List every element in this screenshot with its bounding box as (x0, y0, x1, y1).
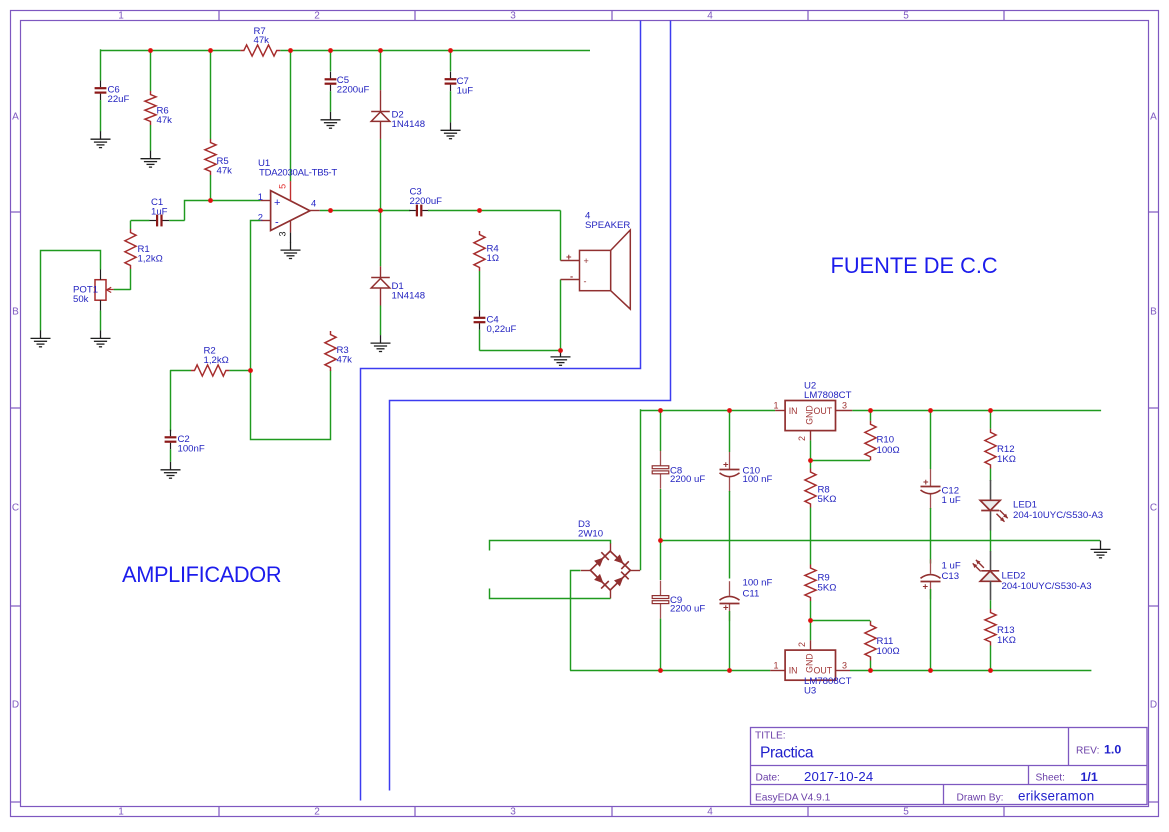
svg-text:2200uF: 2200uF (410, 196, 443, 207)
op-amp U1 TDA2030AL-TB5-T (258, 158, 338, 237)
svg-text:erikseramon: erikseramon (1018, 789, 1094, 804)
section separator line inner (390, 21, 671, 791)
svg-text:IN: IN (789, 406, 798, 416)
resistor R9 (805, 565, 837, 602)
svg-text:GND: GND (805, 653, 815, 673)
svg-text:1: 1 (773, 401, 778, 411)
wire (729, 410, 731, 452)
svg-text:3: 3 (510, 807, 516, 818)
junction (988, 408, 993, 413)
svg-text:2: 2 (797, 436, 807, 441)
ground (371, 335, 391, 351)
svg-text:5: 5 (903, 10, 909, 21)
wire AC input 1 (490, 541, 611, 551)
svg-text:2200 uF: 2200 uF (670, 474, 705, 485)
svg-text:2: 2 (314, 10, 320, 21)
wire (870, 620, 872, 623)
svg-text:1KΩ: 1KΩ (997, 454, 1016, 465)
resistor R8 (805, 469, 837, 508)
svg-text:1: 1 (118, 807, 124, 818)
svg-text:47k: 47k (337, 355, 353, 366)
junction (288, 48, 293, 53)
LED1 pin (990, 480, 992, 500)
svg-text:5KΩ: 5KΩ (818, 583, 837, 594)
junction R2 (248, 368, 253, 373)
capacitor C6 (95, 81, 130, 105)
capacitor C8 (652, 451, 705, 489)
svg-text:GND: GND (805, 405, 815, 425)
capacitor C9 (652, 581, 705, 619)
ground (441, 122, 461, 138)
svg-text:D: D (1150, 700, 1157, 711)
wire (640, 409, 642, 570)
svg-text:TITLE:: TITLE: (755, 731, 786, 742)
ground (321, 112, 341, 128)
wire (210, 50, 212, 139)
junction (328, 48, 333, 53)
svg-text:SPEAKER: SPEAKER (585, 220, 630, 231)
svg-text:2200 uF: 2200 uF (670, 604, 705, 615)
wire from speaker - (560, 280, 562, 351)
wire (990, 646, 992, 671)
wire (930, 410, 932, 469)
svg-text:C11: C11 (743, 588, 760, 599)
svg-text:+: + (584, 256, 589, 266)
junction output (328, 208, 333, 213)
svg-text:A: A (12, 112, 19, 123)
wire (330, 91, 332, 112)
capacitor C12 (921, 469, 961, 509)
svg-text:OUT: OUT (814, 666, 833, 676)
svg-text:Date:: Date: (756, 773, 780, 784)
svg-text:2W10: 2W10 (578, 529, 603, 540)
capacitor C2 (165, 430, 205, 455)
wire (290, 50, 292, 181)
ruler numbers top (118, 10, 909, 21)
svg-text:0,22uF: 0,22uF (487, 324, 517, 335)
capacitor C11 (720, 578, 773, 622)
LED2 pin (990, 581, 992, 600)
wire (810, 461, 812, 469)
junction R4 (477, 208, 482, 213)
wire (114, 289, 131, 291)
capacitor C3 (409, 187, 442, 217)
wire (660, 541, 662, 581)
junction (928, 408, 933, 413)
junction D-column (378, 208, 383, 213)
wire (479, 271, 481, 310)
svg-text:LM7808CT: LM7808CT (804, 390, 852, 401)
diode D1 (371, 278, 425, 302)
svg-text:3: 3 (842, 401, 847, 411)
wire output (320, 210, 410, 212)
svg-text:LED1: LED1 (1013, 500, 1037, 511)
svg-text:Drawn By:: Drawn By: (957, 792, 1004, 803)
svg-text:100 nF: 100 nF (743, 474, 773, 485)
svg-text:1N4148: 1N4148 (392, 119, 426, 130)
wire (870, 661, 872, 671)
wire feedback (251, 221, 331, 440)
wire (380, 211, 382, 266)
wire (131, 220, 150, 222)
LED LED1 (980, 500, 1103, 522)
wire (150, 50, 152, 91)
wire AC input 2 (490, 589, 611, 599)
capacitor C5 (325, 72, 370, 96)
wire to speaker + (560, 211, 562, 261)
resistor R12 (985, 429, 1016, 469)
svg-text:3: 3 (510, 10, 516, 21)
wire (660, 410, 662, 451)
svg-text:AMPLIFICADOR: AMPLIFICADOR (122, 562, 281, 587)
wire (990, 531, 992, 552)
ground (141, 151, 161, 167)
wire (810, 621, 812, 641)
svg-text:2200uF: 2200uF (337, 85, 370, 96)
svg-text:REV:: REV: (1076, 746, 1099, 757)
svg-text:1uF: 1uF (457, 85, 474, 96)
section separator line outer (361, 21, 641, 801)
wire PSU VCC+ rail (852, 410, 1101, 412)
wire (380, 139, 382, 211)
wire (990, 410, 992, 429)
wire (810, 440, 812, 460)
svg-text:Practica: Practica (760, 745, 814, 762)
wire PSU center tap (660, 540, 1100, 542)
svg-text:LED2: LED2 (1002, 571, 1026, 582)
diode D2 pin (380, 90, 382, 111)
ruler numbers bottom (118, 807, 909, 818)
svg-text:+: + (723, 460, 729, 471)
diode D2 (371, 110, 425, 131)
svg-text:5KΩ: 5KΩ (818, 494, 837, 505)
wire VCC rail left (100, 50, 240, 52)
resistor R13 (985, 609, 1016, 646)
ground (281, 242, 301, 258)
wire (150, 125, 152, 151)
wire (170, 370, 191, 372)
regulator U2 LM7808CT (773, 381, 852, 442)
svg-text:2: 2 (797, 642, 807, 647)
svg-text:4: 4 (707, 807, 713, 818)
svg-text:5: 5 (278, 184, 288, 189)
ruler letters left (12, 112, 19, 711)
wire (729, 611, 731, 670)
svg-text:B: B (12, 307, 19, 318)
wire (930, 589, 932, 670)
ground (91, 131, 111, 147)
junction speaker gnd (558, 348, 563, 353)
wire (480, 350, 561, 352)
svg-text:204-10UYC/S530-A3: 204-10UYC/S530-A3 (1002, 581, 1092, 592)
svg-text:1N4148: 1N4148 (392, 291, 426, 302)
svg-text:1: 1 (118, 10, 124, 21)
resistor R6 (145, 91, 172, 126)
wire (330, 50, 332, 71)
wire (990, 600, 992, 609)
svg-text:C: C (1150, 503, 1157, 514)
wire (210, 175, 212, 201)
wire (810, 460, 870, 462)
junction +input (208, 198, 213, 203)
ruler letters right (1150, 112, 1157, 711)
diode D1 pin (380, 266, 382, 278)
wire (930, 508, 932, 564)
svg-text:TDA2030AL-TB5-T: TDA2030AL-TB5-T (259, 168, 337, 179)
svg-text:IN: IN (789, 666, 798, 676)
junction (448, 48, 453, 53)
resistor R5 (205, 139, 232, 177)
junction (727, 408, 732, 413)
junction (988, 668, 993, 673)
resistor R7 (240, 26, 280, 56)
svg-text:C13: C13 (942, 571, 960, 582)
capacitor C4 (474, 310, 517, 335)
wire PSU VCC- rail (850, 670, 1091, 672)
capacitor C10 (720, 452, 773, 492)
wire (810, 508, 812, 565)
wire (810, 601, 812, 621)
svg-text:1/1: 1/1 (1081, 770, 1098, 784)
wire (380, 306, 382, 336)
svg-text:U3: U3 (804, 686, 816, 697)
svg-text:204-10UYC/S530-A3: 204-10UYC/S530-A3 (1013, 510, 1103, 521)
ground (31, 330, 51, 346)
resistor R11 (865, 622, 900, 661)
ground (551, 351, 571, 366)
wire (480, 210, 561, 212)
svg-text:A: A (1150, 112, 1157, 123)
wire (810, 620, 870, 622)
wire (170, 370, 172, 431)
wire (450, 50, 452, 71)
svg-text:1.0: 1.0 (1104, 743, 1121, 757)
speaker SPEAKER (561, 211, 631, 309)
U1 pin3 ground lead (290, 233, 292, 243)
wire VCC rail right (280, 50, 590, 52)
svg-text:50k: 50k (73, 294, 89, 305)
svg-text:1: 1 (258, 191, 263, 202)
svg-text:OUT: OUT (814, 406, 833, 416)
svg-text:EasyEDA V4.9.1: EasyEDA V4.9.1 (755, 792, 831, 803)
junction (148, 48, 153, 53)
svg-text:3: 3 (842, 660, 847, 670)
svg-text:-: - (584, 277, 587, 287)
svg-text:100nF: 100nF (178, 444, 205, 455)
svg-text:+: + (923, 582, 929, 593)
wire (100, 100, 102, 131)
capacitor C1 (150, 197, 170, 226)
junction (727, 668, 732, 673)
LED2 pin (990, 551, 992, 571)
svg-text:+: + (566, 252, 572, 263)
svg-text:B: B (1150, 307, 1157, 318)
svg-text:C: C (12, 503, 19, 514)
resistor R2 (191, 346, 229, 377)
svg-text:1: 1 (773, 660, 778, 670)
svg-text:+: + (923, 477, 929, 488)
diode D2 pin (380, 121, 382, 139)
wire (479, 330, 481, 351)
capacitor C13 (921, 559, 961, 599)
diode D1 pin (380, 288, 382, 306)
svg-text:2017-10-24: 2017-10-24 (804, 769, 873, 784)
wire PSU VCC+ rail (640, 410, 775, 412)
wire (100, 311, 102, 331)
svg-text:3: 3 (278, 231, 288, 236)
svg-text:-: - (275, 217, 279, 229)
bridge rectifier D3 2W10 (578, 519, 640, 599)
capacitor C7 (445, 72, 474, 97)
LED1 pin (990, 512, 992, 531)
svg-text:Sheet:: Sheet: (1036, 773, 1065, 784)
junction (868, 668, 873, 673)
svg-text:4: 4 (311, 198, 316, 209)
wire PSU VCC- rail (570, 670, 770, 672)
junction U3 adj (808, 618, 813, 623)
wire (130, 221, 132, 229)
wire (428, 210, 480, 212)
ground (91, 330, 111, 346)
svg-text:47k: 47k (254, 35, 270, 46)
resistor R1 (125, 229, 163, 269)
junction (928, 668, 933, 673)
svg-text:+: + (723, 602, 729, 613)
junction (208, 48, 213, 53)
svg-text:R10: R10 (877, 435, 895, 446)
svg-text:100Ω: 100Ω (877, 646, 900, 657)
LED LED2 (973, 560, 1092, 592)
wire (229, 370, 250, 372)
svg-text:1Ω: 1Ω (487, 253, 500, 264)
svg-text:4: 4 (707, 10, 713, 21)
wire POT top to ground (41, 251, 101, 331)
svg-text:5: 5 (903, 807, 909, 818)
junction U2 adj (808, 458, 813, 463)
wire (660, 619, 662, 670)
svg-text:1KΩ: 1KΩ (997, 635, 1016, 646)
wire (170, 449, 172, 462)
ground (161, 462, 181, 478)
svg-text:1uF: 1uF (151, 206, 168, 217)
wire (380, 50, 382, 90)
svg-text:2: 2 (314, 807, 320, 818)
svg-text:FUENTE DE C.C: FUENTE DE C.C (831, 253, 998, 278)
wire (660, 489, 662, 541)
wire (130, 269, 132, 290)
wire to +input (185, 201, 261, 221)
junction (658, 408, 663, 413)
junction (868, 408, 873, 413)
regulator U3 LM7808CT (770, 640, 851, 696)
ground (1091, 541, 1111, 558)
svg-text:100 nF: 100 nF (743, 578, 773, 589)
svg-text:1 uF: 1 uF (942, 495, 961, 506)
junction center tap (658, 538, 663, 543)
svg-text:1,2kΩ: 1,2kΩ (204, 355, 229, 366)
wire (729, 491, 731, 579)
wire (450, 91, 452, 122)
junction (658, 668, 663, 673)
resistor R10 (865, 421, 900, 461)
resistor R3 (325, 331, 352, 371)
wire (100, 49, 102, 80)
junction (378, 48, 383, 53)
svg-text:22uF: 22uF (108, 94, 130, 105)
wire (169, 220, 185, 222)
svg-text:47k: 47k (217, 166, 233, 177)
svg-text:100Ω: 100Ω (877, 445, 900, 456)
svg-text:1,2kΩ: 1,2kΩ (138, 254, 163, 265)
svg-text:-: - (570, 271, 573, 282)
title block (751, 728, 1148, 805)
wire (990, 469, 992, 482)
svg-text:+: + (274, 197, 280, 209)
resistor R4 (474, 231, 500, 271)
svg-text:47k: 47k (157, 115, 173, 126)
wire bridge minus (571, 571, 581, 671)
potentiometer POT1 (73, 269, 114, 310)
svg-text:D: D (12, 700, 19, 711)
wire (870, 410, 872, 421)
